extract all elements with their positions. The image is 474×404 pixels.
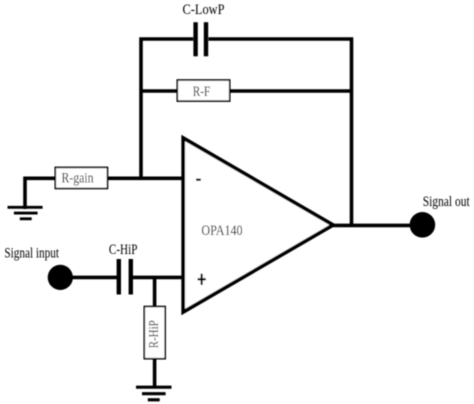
wire: top feedback right segment and right branch down to output node (209, 39, 352, 225)
node: Signal out terminal (410, 194, 470, 238)
wire: R-gain to inverting input (108, 177, 184, 181)
resistor R-gain (55, 167, 107, 188)
wire: C-HiP to non-inverting input (133, 276, 183, 280)
wire: R-gain left lead to ground (25, 178, 56, 209)
wire: left feedback branch (node - input up to feedback network) (141, 39, 193, 179)
wire: junction down to R-HiP (153, 277, 157, 307)
svg-text:R-gain: R-gain (62, 170, 94, 186)
op-amp U1 OPA140 (183, 138, 333, 312)
svg-text:Signal input: Signal input (4, 246, 59, 262)
ground (left, below R-gain) (8, 207, 43, 219)
svg-text:R-F: R-F (193, 84, 211, 100)
capacitor C-HiP (109, 242, 138, 295)
svg-text:Signal out: Signal out (423, 194, 470, 210)
wire: input node to C-HiP (71, 276, 117, 280)
ground (bottom, below R-HiP) (136, 387, 172, 400)
svg-text:R-HiP: R-HiP (146, 320, 161, 348)
wire: R-F left lead (141, 89, 178, 93)
pin label: non-inverting input + (198, 274, 206, 285)
svg-text:C-LowP: C-LowP (183, 2, 225, 18)
wire: op-amp output to Signal out node (333, 224, 412, 228)
node: Signal input terminal (4, 246, 72, 290)
wire: R-HiP to bottom ground (153, 359, 157, 389)
pin label: inverting input - (196, 179, 201, 181)
resistor R-F (177, 80, 229, 101)
wire: R-F right lead (230, 89, 352, 93)
capacitor C-LowP (183, 2, 225, 56)
svg-text:C-HiP: C-HiP (109, 242, 138, 258)
resistor R-HiP (144, 307, 165, 359)
svg-text:OPA140: OPA140 (201, 223, 242, 239)
